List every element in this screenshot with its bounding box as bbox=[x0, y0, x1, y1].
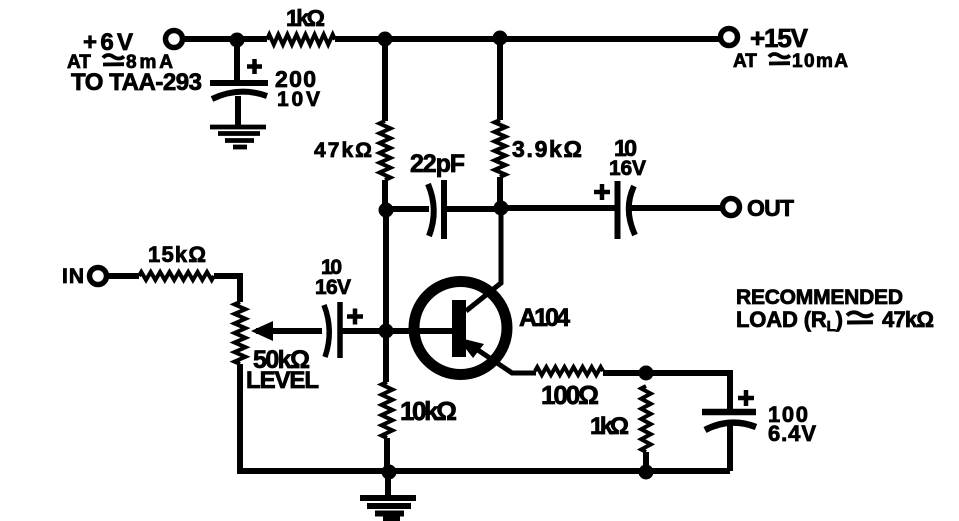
svg-text:+15V: +15V bbox=[750, 23, 809, 53]
transistor Q1 circle bbox=[414, 282, 507, 375]
svg-text:10mA: 10mA bbox=[792, 51, 848, 72]
ground G1 bbox=[210, 127, 266, 147]
svg-text:IN: IN bbox=[62, 265, 84, 288]
node junction base row left bbox=[379, 203, 394, 218]
wire node to C100 top bbox=[646, 373, 730, 412]
svg-text:15kΩ: 15kΩ bbox=[148, 242, 206, 267]
transistor Q1 base bar bbox=[452, 300, 466, 357]
node junction emitter top bbox=[639, 366, 654, 381]
label AT ~=10mA bbox=[733, 51, 848, 72]
wire IN to R15k bbox=[107, 273, 139, 279]
wire C out to OUT terminal bbox=[630, 205, 722, 211]
potentiometer wiper arrow line bbox=[256, 328, 322, 334]
node junction collector row bbox=[494, 201, 509, 216]
wire C100 bottom lead bbox=[727, 425, 733, 471]
svg-text:OUT: OUT bbox=[747, 195, 794, 221]
resistor R 1k (bottom) bbox=[641, 386, 651, 452]
capacitor C in plus sign bbox=[347, 309, 363, 325]
svg-text:A104: A104 bbox=[519, 304, 570, 332]
capacitor C 100uF 6.4V plus sign bbox=[738, 390, 754, 406]
svg-text:16V: 16V bbox=[315, 276, 351, 299]
terminal +15V bbox=[721, 29, 738, 46]
resistor R 10k bbox=[382, 382, 393, 438]
terminal OUT bbox=[723, 199, 740, 216]
capacitor C 22pF bbox=[428, 180, 444, 239]
node junction bottom rail right bbox=[639, 465, 654, 480]
resistor R 3.9k bbox=[495, 120, 506, 177]
label LOAD (RL) ~= 47kOhm bbox=[736, 307, 934, 335]
node junction ground bbox=[382, 465, 397, 480]
wire ground stem bbox=[385, 471, 391, 497]
capacitor C in 10uF 16V bbox=[324, 302, 340, 358]
node junction 47k/top rail bbox=[378, 32, 393, 47]
svg-text:1kΩ: 1kΩ bbox=[286, 5, 325, 31]
node junction C1/top rail bbox=[230, 33, 245, 48]
svg-text:3.9kΩ: 3.9kΩ bbox=[512, 136, 582, 162]
terminal IN bbox=[90, 268, 107, 285]
svg-text:LEVEL: LEVEL bbox=[246, 367, 319, 394]
potentiometer R 50k track bbox=[235, 302, 246, 364]
svg-text:10kΩ: 10kΩ bbox=[400, 396, 457, 426]
wire C1 top lead bbox=[234, 39, 240, 81]
wire base node to transistor bbox=[386, 328, 452, 334]
potentiometer wiper arrowhead bbox=[251, 321, 273, 341]
wire base node vertical bbox=[383, 208, 389, 382]
svg-text:47kΩ: 47kΩ bbox=[314, 139, 372, 162]
svg-text:10V: 10V bbox=[277, 88, 320, 111]
wire C1 bottom lead bbox=[235, 96, 241, 125]
node junction 3.9k/top rail bbox=[493, 31, 508, 46]
wire R15k to pot top bbox=[214, 276, 240, 302]
transistor Q1 emitter arrow bbox=[466, 340, 484, 359]
wire R10k to bottom rail bbox=[384, 438, 390, 474]
wire 3.9k bottom lead bbox=[497, 177, 503, 211]
wire pot bottom lead bbox=[237, 364, 243, 474]
wire bottom rail bbox=[240, 468, 730, 474]
node junction base bbox=[379, 324, 394, 339]
ground G2 bbox=[360, 498, 416, 520]
capacitor C 200uF 10V bbox=[210, 83, 268, 99]
wire collector vertical bbox=[466, 208, 501, 311]
wire C22p to collector node bbox=[444, 206, 501, 212]
wire R1k bottom lead bbox=[643, 452, 649, 472]
resistor R 1k (top) bbox=[267, 35, 335, 45]
wire top rail left segment bbox=[184, 36, 267, 42]
svg-text:16V: 16V bbox=[609, 157, 646, 180]
svg-text:6.4V: 6.4V bbox=[768, 421, 816, 446]
wire 3.9k top lead bbox=[497, 38, 503, 120]
transistor Q1 emitter bbox=[466, 342, 536, 373]
svg-text:22pF: 22pF bbox=[410, 150, 465, 178]
svg-text:AT: AT bbox=[733, 51, 757, 72]
wire top rail right segment bbox=[335, 36, 719, 42]
capacitor C 100uF 6.4V bbox=[702, 412, 756, 430]
svg-text:47kΩ: 47kΩ bbox=[882, 307, 934, 332]
terminal +6V bbox=[166, 31, 183, 48]
wire 47k bottom lead bbox=[382, 180, 388, 212]
wire 47k top lead bbox=[382, 39, 388, 121]
capacitor C 200uF 10V plus sign bbox=[247, 59, 262, 74]
svg-text:100Ω: 100Ω bbox=[541, 380, 599, 410]
wire C in to base node bbox=[340, 328, 386, 334]
wire collector node to C out bbox=[501, 205, 615, 211]
capacitor C out 10uF 16V plus sign bbox=[594, 184, 610, 200]
capacitor C out 10uF 16V bbox=[618, 181, 636, 239]
label AT ~=8mA bbox=[67, 52, 173, 73]
resistor R 47k bbox=[380, 121, 391, 180]
svg-text:1kΩ: 1kΩ bbox=[590, 413, 629, 440]
svg-text:RECOMMENDED: RECOMMENDED bbox=[736, 286, 903, 309]
resistor R 100 bbox=[535, 367, 603, 375]
resistor R 15k bbox=[139, 272, 214, 280]
wire R100 to node bbox=[603, 370, 646, 376]
wire node row to C22p bbox=[386, 206, 429, 212]
svg-text:TO TAA-293: TO TAA-293 bbox=[71, 69, 202, 96]
